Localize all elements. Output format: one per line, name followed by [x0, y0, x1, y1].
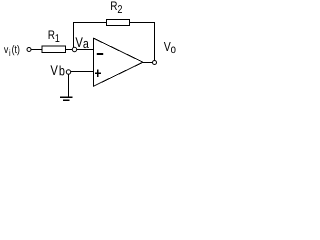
wire R1 to node Va	[66, 49, 73, 51]
wire feedback vertical down to node Va	[73, 23, 75, 48]
ground	[60, 97, 73, 100]
label Va	[75, 37, 88, 48]
wire Vb down to ground	[68, 74, 70, 98]
node Va junction circle	[72, 47, 76, 51]
label R1	[49, 30, 60, 42]
label Vo	[164, 42, 176, 53]
output terminal circle	[153, 61, 157, 65]
wire feedback top horizontal left	[73, 22, 107, 24]
resistor R1	[42, 46, 66, 53]
label Vb	[50, 65, 64, 75]
wire op-amp output	[143, 62, 152, 64]
wire input to R1	[31, 49, 42, 51]
wire feedback vertical down to output node	[154, 23, 156, 61]
op-amp U1 triangle	[94, 38, 144, 86]
op-amp inverting input minus sign	[97, 53, 103, 55]
wire R2 right horizontal	[130, 22, 156, 24]
wire node Va to op-amp inverting input	[77, 49, 94, 51]
node Vb terminal circle	[66, 70, 70, 74]
resistor R2	[107, 20, 130, 26]
op-amp non-inverting input plus sign	[95, 69, 101, 77]
label vi(t)	[4, 45, 19, 56]
input terminal circle	[27, 48, 31, 52]
label R2	[111, 1, 122, 13]
wire Vb to op-amp non-inverting input	[71, 71, 94, 73]
